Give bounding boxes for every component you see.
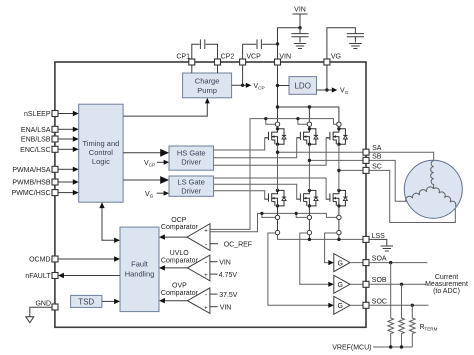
wire: VIN supply to VIN pin	[278, 7, 308, 60]
svg-text:Comparator: Comparator	[161, 290, 199, 297]
pin VG	[324, 54, 341, 65]
svg-text:4.75V: 4.75V	[219, 272, 238, 279]
resistor R1	[388, 263, 394, 347]
wire CP2 to charge pump	[217, 65, 219, 73]
pin SOA	[363, 255, 387, 265]
svg-text:+: +	[204, 306, 208, 312]
pin nFAULT	[25, 273, 58, 281]
HS gate driver U-HS	[169, 146, 214, 170]
pin SA	[363, 145, 382, 155]
wire LS driver gate C	[214, 178, 330, 199]
wire LS sources down	[278, 206, 339, 215]
wire HS driver gate A	[214, 138, 269, 150]
pin CP1	[176, 54, 194, 65]
svg-text:+: +	[204, 273, 208, 279]
capacitor C-VCP between VCP and VIN	[243, 39, 280, 59]
transistor Q6 (LS C)	[326, 189, 348, 208]
wire OCP output to fault	[159, 234, 187, 239]
svg-text:Logic: Logic	[92, 157, 110, 166]
pin VCP	[240, 54, 262, 65]
motor M1	[404, 160, 462, 218]
node drain sense tap A	[275, 122, 279, 126]
capacitor C-FLY between CP1 and CP2	[192, 39, 218, 59]
pin GND	[35, 301, 58, 310]
svg-text:CP2: CP2	[221, 54, 235, 61]
svg-text:(to ADC): (to ADC)	[433, 288, 460, 295]
wire SOC out	[369, 304, 429, 307]
svg-text:+: +	[204, 229, 208, 235]
svg-text:OCP: OCP	[171, 217, 187, 224]
svg-text:OVP: OVP	[172, 283, 187, 290]
wire HS driver gate B	[214, 138, 301, 158]
svg-text:ENC/LSC: ENC/LSC	[20, 147, 50, 154]
transistor Q1 (HS A)	[265, 127, 287, 146]
svg-text:CP: CP	[258, 86, 265, 92]
node drain sense rail to OCP	[210, 117, 336, 229]
pin SOB	[363, 277, 387, 287]
svg-text:VIN: VIN	[294, 7, 306, 14]
op-amp OCP comparator	[161, 217, 210, 251]
wire UVLO output to fault	[159, 265, 187, 270]
wire logic to fault link	[99, 202, 120, 243]
pin SC	[363, 164, 382, 174]
wire phase B	[308, 145, 407, 202]
VCP input to HS driver	[144, 160, 169, 169]
svg-text:CP: CP	[149, 163, 156, 169]
svg-text:Comparator: Comparator	[161, 257, 199, 264]
svg-text:CP1: CP1	[176, 54, 190, 61]
svg-text:ENB/LSB: ENB/LSB	[21, 137, 51, 144]
svg-text:Timing and: Timing and	[82, 139, 119, 148]
wire CSA input C (tap C2 to G top)	[325, 233, 337, 263]
svg-text:VCP: VCP	[246, 54, 261, 61]
pin LSS	[363, 233, 385, 243]
wire between sense taps	[278, 220, 339, 231]
capacitor C-VIN to ground	[291, 28, 308, 49]
node sense tap A2	[275, 230, 279, 234]
wire LS driver gate B	[214, 184, 300, 199]
svg-text:G: G	[345, 90, 349, 96]
svg-text:LSS: LSS	[372, 233, 386, 240]
svg-text:OCMD: OCMD	[29, 257, 50, 264]
svg-text:Control: Control	[89, 148, 114, 157]
pin ENA/LSA	[21, 126, 58, 134]
svg-text:PWMC/HSC: PWMC/HSC	[12, 190, 51, 197]
timing and control logic U-LOGIC	[79, 104, 123, 202]
transistor Q3 (HS C)	[326, 127, 348, 146]
svg-text:VIN: VIN	[220, 304, 232, 311]
node VCP output wire	[232, 65, 265, 92]
svg-text:SB: SB	[372, 154, 382, 161]
input arrows nSLEEP..PWMC to logic	[58, 111, 79, 196]
transistor Q5 (LS B)	[297, 189, 319, 208]
node OC_REF input	[210, 241, 252, 248]
pin PWMC/HSC	[12, 190, 58, 198]
svg-text:ENA/LSA: ENA/LSA	[21, 127, 51, 134]
pin SB	[363, 154, 382, 164]
svg-text:Handling: Handling	[125, 270, 155, 279]
wire circles to HS drains	[278, 126, 339, 128]
pin VIN	[275, 54, 292, 65]
fault handling U-FAULT	[120, 227, 159, 312]
wire OVP output to fault	[159, 298, 187, 303]
svg-text:SOC: SOC	[372, 299, 387, 306]
svg-text:TERM: TERM	[424, 327, 437, 332]
TSD U-TSD	[71, 295, 102, 307]
node sense tap C2	[337, 230, 341, 234]
svg-text:HS Gate: HS Gate	[177, 148, 206, 157]
op-amp G amp B	[328, 275, 363, 293]
bus arrow logic to LS driver	[123, 176, 169, 184]
svg-text:Fault: Fault	[131, 260, 149, 269]
bus arrow logic to HS driver	[123, 149, 169, 157]
wire TSD to fault	[102, 299, 120, 304]
node OVP inputs	[210, 292, 238, 312]
wire phase C	[337, 145, 455, 223]
pin CP2	[215, 54, 235, 65]
svg-text:VG: VG	[331, 54, 341, 61]
pin ENB/LSB	[21, 136, 58, 144]
pin ENC/LSC	[20, 146, 58, 154]
transistor Q4 (LS A)	[265, 189, 287, 208]
svg-text:SC: SC	[372, 164, 382, 171]
svg-text:Pump: Pump	[197, 86, 217, 95]
wire fault to nFAULT	[58, 273, 120, 278]
svg-text:VIN: VIN	[219, 259, 231, 266]
label current measurement	[425, 274, 468, 295]
pin SOC	[363, 299, 387, 309]
svg-text:SOA: SOA	[372, 255, 387, 262]
main IC outline	[55, 62, 366, 327]
wire CP1 to charge pump	[191, 65, 193, 73]
op-amp UVLO comparator	[161, 250, 210, 281]
wire LS driver gate A	[214, 191, 269, 199]
pin OCMD	[29, 256, 58, 264]
node sense tap A1	[275, 215, 279, 219]
wire SOB out	[369, 283, 427, 286]
LDO U-LDO	[289, 77, 317, 95]
node sense tap B2	[307, 230, 311, 234]
resistor R3 (RTERM)	[410, 305, 438, 347]
LS gate driver U-LS	[169, 176, 214, 196]
node LSS rail	[278, 235, 364, 241]
svg-text:nSLEEP: nSLEEP	[24, 111, 51, 118]
wire OCMD to fault	[58, 256, 120, 261]
wire: charge pump enable from logic	[123, 98, 210, 116]
svg-text:OC_REF: OC_REF	[224, 241, 252, 248]
svg-text:SOB: SOB	[372, 277, 387, 284]
node UVLO inputs	[210, 259, 238, 278]
svg-text:Charge: Charge	[195, 76, 220, 85]
svg-text:TSD: TSD	[78, 297, 94, 306]
svg-text:PWMA/HSA: PWMA/HSA	[12, 167, 50, 174]
svg-text:VREF(MCU): VREF(MCU)	[332, 345, 371, 352]
node sense tap C1	[337, 215, 341, 219]
pin nSLEEP	[24, 111, 58, 119]
node drain sense tap C	[337, 122, 341, 126]
op-amp G amp C	[328, 296, 363, 314]
wire GND to ground	[26, 307, 52, 322]
svg-text:Driver: Driver	[181, 158, 202, 167]
svg-text:G: G	[150, 194, 154, 200]
wire LSS to ground	[369, 239, 393, 251]
svg-text:VIN: VIN	[279, 54, 291, 61]
svg-text:37.5V: 37.5V	[219, 292, 238, 299]
svg-text:G: G	[337, 260, 342, 267]
svg-text:LS Gate: LS Gate	[177, 178, 205, 187]
pin PWMA/HSA	[12, 166, 58, 174]
pin PWMB/HSB	[12, 179, 58, 187]
svg-text:Driver: Driver	[181, 187, 202, 196]
wire SOA out	[369, 261, 427, 264]
svg-text:GND: GND	[35, 301, 51, 308]
svg-text:LDO: LDO	[294, 81, 310, 90]
wire VIN pin down to LDO and drain rail	[276, 65, 289, 107]
capacitor C-VG to ground	[327, 28, 364, 59]
charge pump U-CP	[183, 73, 232, 98]
svg-text:PWMB/HSB: PWMB/HSB	[12, 180, 50, 187]
svg-text:UVLO: UVLO	[170, 250, 190, 257]
svg-text:Comparator: Comparator	[161, 224, 199, 231]
transistor Q2 (HS B)	[297, 127, 319, 146]
node source sense rail to OCP	[210, 212, 336, 232]
node VG output wire	[317, 65, 349, 96]
op-amp OVP comparator	[161, 283, 210, 314]
wire phase A	[276, 145, 434, 191]
resistor R2	[399, 284, 405, 347]
svg-text:SA: SA	[372, 145, 382, 152]
node drain sense tap B	[307, 122, 311, 126]
node sense tap B1	[307, 215, 311, 219]
wire CSA input B (tap B2 to G middle)	[300, 233, 329, 284]
wire VREF rail	[332, 345, 412, 352]
svg-text:nFAULT: nFAULT	[25, 273, 51, 280]
wire HS driver gate C	[214, 138, 330, 165]
svg-text:G: G	[337, 282, 342, 289]
node VIN drain rail	[276, 105, 339, 121]
op-amp G amp A	[328, 254, 363, 272]
svg-text:G: G	[337, 303, 342, 310]
VG input to LS driver	[145, 191, 169, 200]
wire CSA input A (tap A2 to G bottom)	[268, 233, 329, 305]
